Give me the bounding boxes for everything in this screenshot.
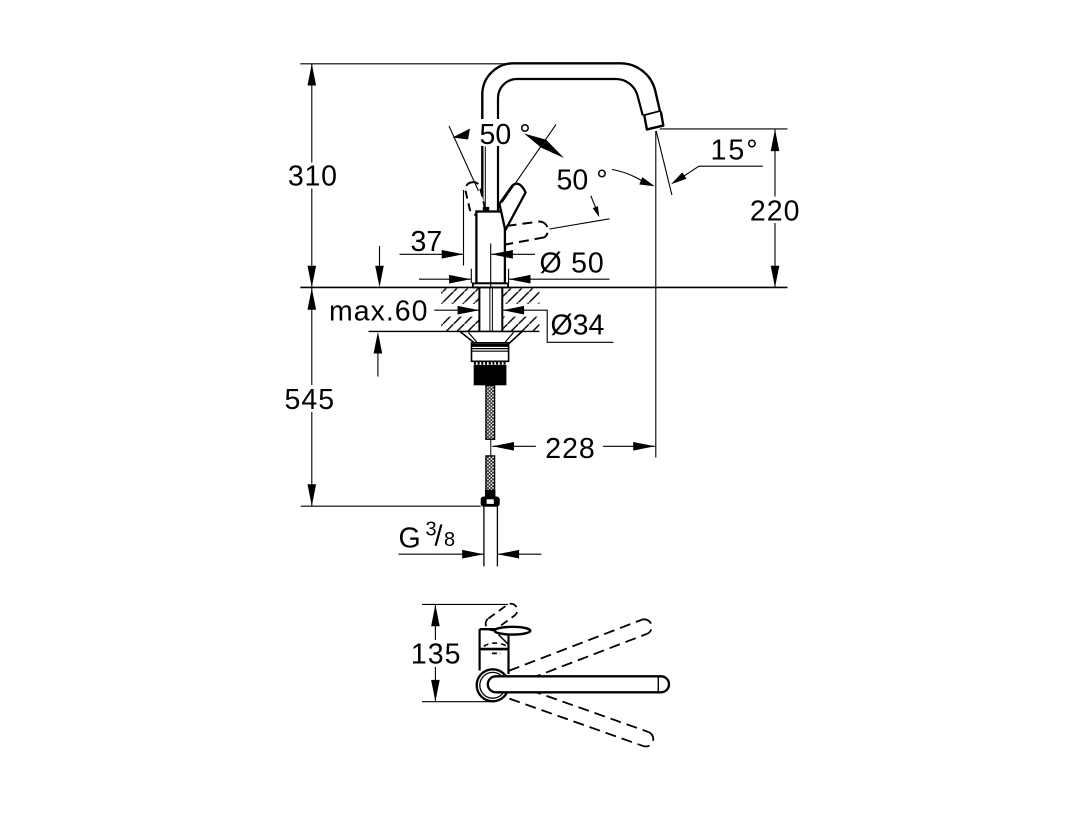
plan short dashes xyxy=(492,652,500,654)
plan hidden lever arc xyxy=(484,643,507,646)
plan body xyxy=(480,629,509,674)
plan dashed spout lower xyxy=(509,685,655,749)
supply pipe ends xyxy=(484,507,498,567)
svg-text:15°: 15° xyxy=(711,134,760,166)
riser inner thin line xyxy=(484,147,486,212)
angle ext line solid lever xyxy=(502,125,556,203)
deck bottom line xyxy=(369,330,540,332)
svg-text:G: G xyxy=(399,522,421,554)
dim D50 extensions xyxy=(471,269,508,283)
supply tubes center pair xyxy=(490,287,493,331)
dim 310 extension top xyxy=(300,63,514,65)
shank tube xyxy=(479,287,502,331)
svg-text:Ø 50: Ø 50 xyxy=(540,247,605,279)
spout inner contour xyxy=(498,79,643,212)
dim 37 line xyxy=(400,253,464,255)
hatch right xyxy=(502,288,539,331)
plan ext line top xyxy=(422,603,508,605)
svg-text:max.60: max.60 xyxy=(329,296,428,328)
dashed lever (left position) xyxy=(464,181,486,217)
dim 310 arrows xyxy=(308,64,317,86)
spout outer contour xyxy=(482,63,662,211)
svg-text:50 °: 50 ° xyxy=(480,119,531,151)
plan solid spout xyxy=(488,676,669,692)
angle ext line left lever xyxy=(449,126,479,191)
dim 220 arrows xyxy=(771,129,780,151)
hatch channel gap xyxy=(434,304,540,317)
base flange xyxy=(473,283,508,287)
dim 220 line xyxy=(774,129,776,287)
50 degree first arrowhead xyxy=(453,129,471,140)
dim 37 extension xyxy=(463,190,465,266)
dim 220 extension top xyxy=(660,128,788,130)
50 degree second arc xyxy=(612,170,645,183)
plan handle ellipse xyxy=(495,627,531,635)
slim arrow to horizontal lever line xyxy=(591,196,597,211)
15 degree leader xyxy=(676,166,763,181)
indicator tab xyxy=(483,207,489,212)
dim 545 extension bottom xyxy=(301,505,481,507)
svg-text:220: 220 xyxy=(750,196,801,228)
dim 228 line xyxy=(492,445,536,447)
hatch left xyxy=(441,288,479,331)
braided hose upper xyxy=(486,385,495,439)
svg-text:8: 8 xyxy=(444,529,455,551)
svg-text:310: 310 xyxy=(288,160,338,192)
threaded shank (black) xyxy=(474,365,507,385)
svg-text:Ø34: Ø34 xyxy=(551,310,605,342)
50 degree first text xyxy=(477,119,533,146)
hose coupling nut xyxy=(481,497,500,507)
braided hose lower xyxy=(486,456,495,497)
plan swivel ring outer xyxy=(477,669,509,701)
dim D50 line xyxy=(419,278,471,280)
dim G38 line xyxy=(399,553,484,555)
deck line xyxy=(300,286,787,288)
friction washer trapezoid xyxy=(460,332,522,343)
angle ext line horizontal lever xyxy=(550,219,610,229)
svg-text:37: 37 xyxy=(411,226,443,258)
dim 135 line xyxy=(434,605,436,702)
center line in hose gap xyxy=(490,440,492,456)
aerator joint line xyxy=(643,111,660,116)
hose end ferrule xyxy=(485,490,495,497)
svg-text:50 °: 50 ° xyxy=(557,165,608,197)
spout tip vertical extension xyxy=(655,131,657,458)
plan ext line bottom xyxy=(422,701,490,703)
svg-text:135: 135 xyxy=(411,639,462,671)
svg-text:228: 228 xyxy=(545,433,596,465)
plan swivel ring inner xyxy=(480,672,506,698)
dim D34 line xyxy=(434,309,479,311)
knurl band xyxy=(474,361,506,365)
svg-text:545: 545 xyxy=(285,384,336,416)
dim 545 line xyxy=(311,287,313,506)
center line in body xyxy=(490,244,492,288)
dim 545 arrows xyxy=(308,288,317,310)
plan cartridge line xyxy=(480,648,509,651)
plan dashed spout upper xyxy=(509,617,654,685)
dim max60 arrows xyxy=(379,246,381,266)
dashed lever (right position) xyxy=(506,222,548,245)
plan dashed lever xyxy=(483,601,520,633)
mounting nut xyxy=(472,343,509,361)
svg-text:/: / xyxy=(435,521,443,553)
aerator tip xyxy=(644,112,663,130)
dim 310 line xyxy=(311,64,313,288)
solid lever xyxy=(499,184,525,231)
15 degree slant line xyxy=(656,131,672,195)
plan handle neck xyxy=(499,635,509,645)
faucet body xyxy=(476,212,505,284)
bowtie arrows on lever line xyxy=(524,134,546,148)
